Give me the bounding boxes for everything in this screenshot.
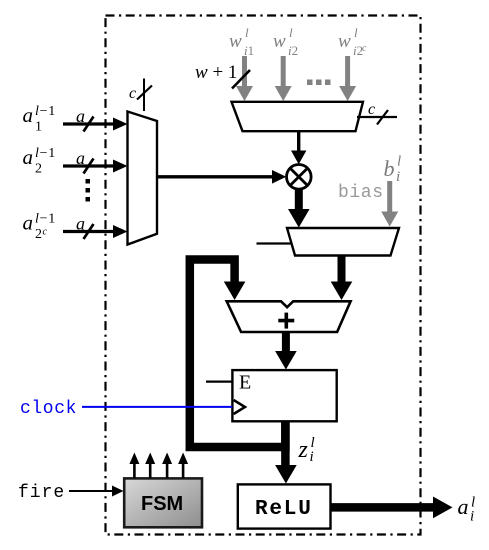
svg-text:a: a: [76, 106, 85, 126]
svg-text:1: 1: [35, 120, 42, 135]
svg-text:z: z: [298, 437, 309, 463]
svg-text:i: i: [470, 509, 474, 525]
svg-text:c: c: [368, 101, 375, 118]
svg-text:c: c: [43, 227, 48, 238]
svg-text:i1: i1: [244, 43, 254, 58]
svg-text:i2: i2: [288, 43, 298, 58]
svg-text:w: w: [273, 31, 286, 52]
svg-text:clock: clock: [20, 399, 77, 419]
svg-text:l: l: [245, 25, 249, 40]
svg-text:FSM: FSM: [141, 493, 183, 515]
svg-text:fire: fire: [18, 483, 65, 503]
svg-text:i: i: [310, 449, 314, 465]
svg-text:l: l: [289, 25, 293, 40]
svg-text:2: 2: [35, 162, 42, 177]
svg-text:w: w: [338, 31, 351, 52]
svg-text:l: l: [397, 154, 401, 170]
svg-text:a: a: [23, 211, 34, 235]
svg-text:a: a: [76, 214, 85, 234]
svg-text:E: E: [239, 372, 251, 394]
svg-text:l: l: [354, 25, 358, 40]
svg-text:a: a: [458, 494, 469, 519]
svg-text:l−1: l−1: [35, 104, 56, 119]
svg-text:bias: bias: [338, 183, 384, 203]
svg-text:2: 2: [35, 227, 42, 242]
svg-text:w: w: [229, 31, 242, 52]
svg-text:w + 1: w + 1: [195, 62, 237, 83]
svg-text:i: i: [396, 169, 400, 185]
svg-text:a: a: [23, 145, 34, 169]
svg-text:ReLU: ReLU: [255, 498, 313, 521]
svg-text:b: b: [384, 156, 395, 181]
svg-text:a: a: [76, 148, 85, 168]
svg-text:l−1: l−1: [35, 146, 56, 161]
svg-text:c: c: [362, 43, 367, 54]
svg-text:c: c: [129, 85, 136, 102]
svg-text:a: a: [23, 103, 34, 127]
svg-text:l−1: l−1: [35, 212, 56, 227]
